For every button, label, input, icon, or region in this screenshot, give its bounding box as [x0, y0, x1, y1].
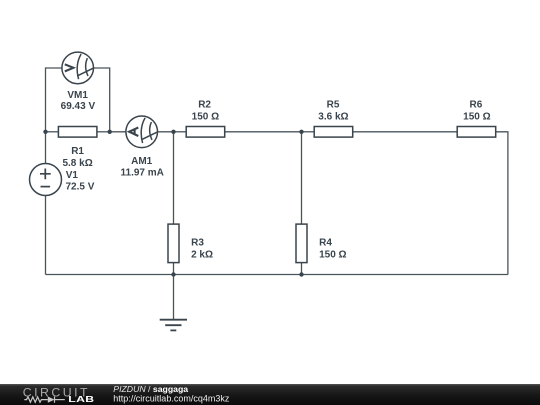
wire bottom rail: [46, 274, 508, 276]
wire R2 to node D: [225, 131, 302, 133]
svg-text:2 kΩ: 2 kΩ: [191, 250, 213, 261]
wire node D to R5: [302, 131, 315, 133]
svg-text:R5: R5: [327, 100, 340, 111]
wire node C down to R3: [173, 132, 175, 224]
logo resistor zigzag and diode: [24, 397, 65, 403]
resistor R1: [58, 127, 97, 138]
svg-text:R3: R3: [191, 237, 204, 248]
wire R5 to R6: [353, 131, 458, 133]
svg-text:150 Ω: 150 Ω: [319, 250, 346, 261]
wire ground stem: [173, 275, 175, 320]
svg-text:R4: R4: [319, 237, 332, 248]
label R6: [463, 100, 490, 123]
resistor R3: [168, 224, 179, 263]
node F junction: [299, 272, 303, 276]
wire R3 bottom: [173, 263, 175, 275]
label R3: [191, 237, 213, 260]
label R1: [62, 146, 92, 169]
svg-text:R1: R1: [71, 146, 84, 157]
wire node A to R1 left: [46, 131, 59, 133]
svg-text:LAB: LAB: [68, 395, 94, 405]
resistor R4: [296, 224, 307, 263]
label AM1: [121, 156, 164, 179]
svg-text:69.43 V: 69.43 V: [61, 101, 96, 112]
wire VM1 right down to R1 right node: [93, 68, 110, 132]
label R2: [192, 100, 219, 123]
svg-text:PIZDUN / saggaga: PIZDUN / saggaga: [113, 384, 188, 394]
svg-text:AM1: AM1: [131, 156, 153, 167]
wire R1 right to node B: [97, 131, 110, 133]
svg-text:11.97 mA: 11.97 mA: [121, 168, 164, 179]
svg-text:R2: R2: [198, 100, 211, 111]
node E junction: [171, 272, 175, 276]
label VM1: [61, 90, 96, 112]
wire node B to AM1: [110, 131, 126, 133]
svg-text:V1: V1: [66, 170, 79, 181]
voltage source V1: [30, 164, 62, 196]
svg-text:VM1: VM1: [67, 90, 88, 101]
label R4: [319, 237, 346, 260]
label R5: [318, 100, 348, 123]
svg-text:http://circuitlab.com/cq4m3kz: http://circuitlab.com/cq4m3kz: [113, 394, 230, 404]
node B junction: [108, 130, 112, 134]
wire node D down to R4: [301, 132, 303, 224]
wire V1 bottom down: [45, 196, 47, 275]
wire R4 bottom: [301, 263, 303, 275]
wire AM1 to node C: [157, 131, 174, 133]
resistor R5: [314, 127, 353, 138]
svg-text:5.8 kΩ: 5.8 kΩ: [62, 158, 92, 169]
svg-text:150 Ω: 150 Ω: [463, 112, 490, 123]
ground: [160, 320, 187, 331]
node D junction: [299, 130, 303, 134]
voltmeter VM1: [62, 52, 94, 84]
ammeter AM1: [126, 116, 158, 148]
svg-text:3.6 kΩ: 3.6 kΩ: [318, 112, 348, 123]
node A junction: [43, 130, 47, 134]
svg-text:150 Ω: 150 Ω: [192, 112, 219, 123]
node C junction: [171, 130, 175, 134]
svg-text:72.5 V: 72.5 V: [66, 182, 95, 193]
label V1: [66, 170, 95, 193]
wire node C to R2: [174, 131, 187, 133]
wire left loop to VM1: [46, 68, 63, 132]
wire node A down to V1: [45, 132, 47, 164]
resistor R6: [457, 127, 496, 138]
svg-text:R6: R6: [470, 100, 483, 111]
wire R6 right corner down: [496, 132, 508, 275]
resistor R2: [186, 127, 225, 138]
